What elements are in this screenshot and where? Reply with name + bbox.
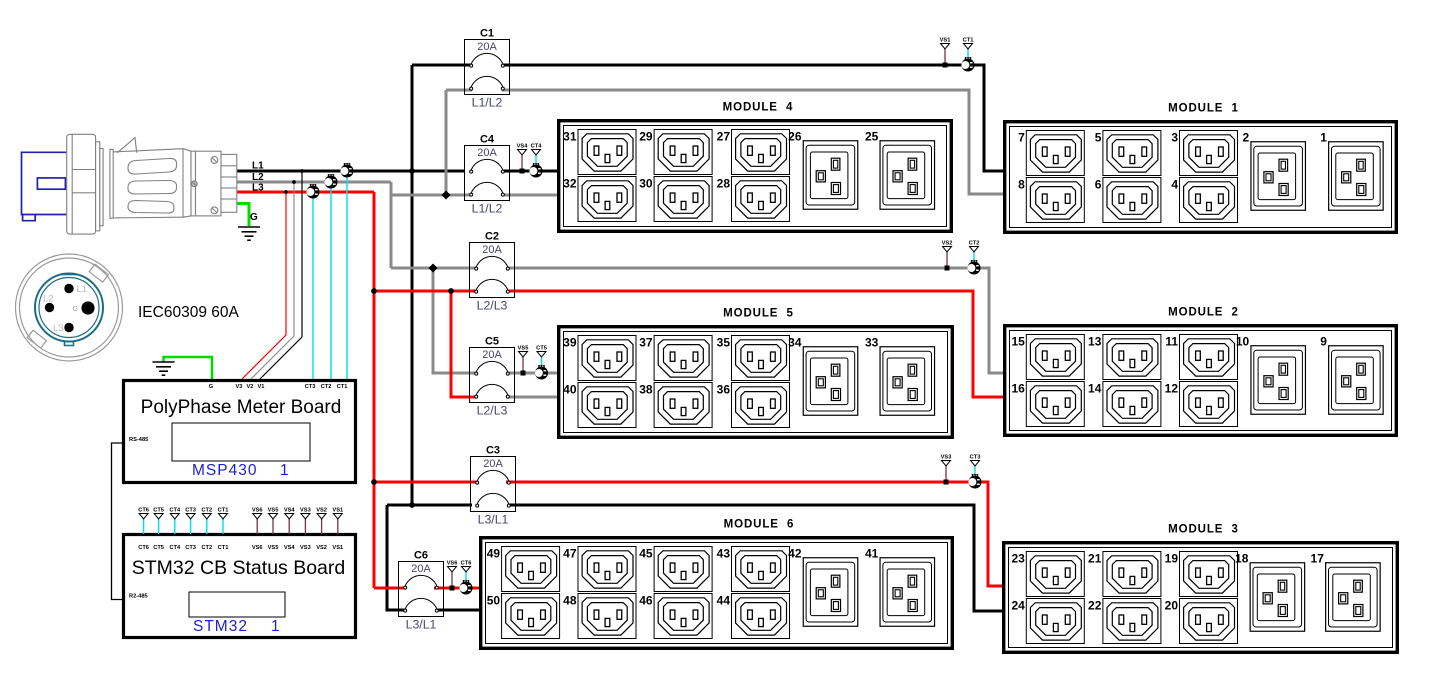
svg-text:47: 47	[563, 547, 577, 561]
svg-text:L3/L1: L3/L1	[406, 618, 437, 632]
svg-text:35: 35	[717, 336, 731, 350]
svg-text:17: 17	[1311, 552, 1325, 566]
svg-text:5: 5	[1095, 131, 1102, 145]
svg-text:18: 18	[1235, 552, 1249, 566]
svg-text:20A: 20A	[482, 349, 502, 361]
svg-text:C3: C3	[486, 445, 500, 457]
svg-text:20A: 20A	[411, 563, 431, 575]
svg-text:1: 1	[1320, 131, 1327, 145]
svg-text:7: 7	[1018, 131, 1025, 145]
svg-text:L3: L3	[53, 323, 64, 334]
svg-text:VS1: VS1	[332, 508, 343, 514]
svg-text:29: 29	[639, 130, 653, 144]
svg-text:VS4: VS4	[517, 144, 529, 150]
svg-text:21: 21	[1088, 552, 1102, 566]
svg-text:VS2: VS2	[316, 545, 327, 551]
svg-text:37: 37	[639, 336, 653, 350]
svg-text:20: 20	[1165, 599, 1179, 613]
svg-text:30: 30	[639, 177, 653, 191]
svg-text:46: 46	[639, 594, 653, 608]
svg-text:L1: L1	[77, 284, 88, 295]
svg-text:48: 48	[563, 594, 577, 608]
svg-text:CT1: CT1	[963, 38, 974, 44]
svg-text:1: 1	[280, 462, 290, 479]
svg-text:CT4: CT4	[169, 508, 181, 514]
svg-text:8: 8	[1018, 178, 1025, 192]
svg-text:VS6: VS6	[252, 508, 263, 514]
svg-text:MODULE 4: MODULE 4	[723, 102, 794, 114]
svg-text:MODULE 5: MODULE 5	[723, 308, 794, 320]
svg-text:MODULE 1: MODULE 1	[1168, 103, 1239, 115]
svg-text:CT3: CT3	[305, 384, 316, 390]
svg-text:CT1: CT1	[337, 384, 348, 390]
svg-text:CT6: CT6	[461, 561, 472, 567]
svg-text:V2: V2	[247, 384, 254, 390]
svg-text:MODULE 2: MODULE 2	[1168, 307, 1239, 319]
svg-text:G: G	[73, 306, 78, 313]
svg-text:CT3: CT3	[185, 545, 196, 551]
svg-text:CT2: CT2	[969, 241, 980, 247]
svg-text:50: 50	[487, 594, 501, 608]
svg-text:39: 39	[563, 336, 577, 350]
svg-text:CT4: CT4	[531, 144, 543, 150]
svg-text:STM32 CB Status Board: STM32 CB Status Board	[132, 557, 346, 579]
svg-text:VS3: VS3	[300, 545, 311, 551]
svg-text:VS6: VS6	[252, 545, 263, 551]
svg-text:C2: C2	[485, 231, 499, 243]
svg-text:6: 6	[1095, 178, 1102, 192]
svg-text:L1/L2: L1/L2	[472, 96, 503, 110]
svg-text:12: 12	[1165, 382, 1179, 396]
svg-text:20A: 20A	[477, 147, 497, 159]
svg-text:33: 33	[865, 336, 879, 350]
svg-text:VS1: VS1	[332, 545, 343, 551]
svg-text:15: 15	[1011, 335, 1025, 349]
svg-text:CT5: CT5	[536, 346, 547, 352]
svg-text:16: 16	[1011, 382, 1025, 396]
svg-text:10: 10	[1236, 335, 1250, 349]
svg-text:MODULE 3: MODULE 3	[1168, 524, 1239, 536]
svg-text:CT2: CT2	[201, 508, 212, 514]
svg-text:VS2: VS2	[942, 241, 953, 247]
svg-text:STM32: STM32	[193, 618, 248, 635]
svg-text:L3/L1: L3/L1	[478, 513, 509, 527]
svg-text:34: 34	[788, 336, 802, 350]
svg-text:L2/L3: L2/L3	[477, 299, 508, 313]
svg-text:VS6: VS6	[447, 561, 458, 567]
svg-text:L2: L2	[252, 172, 264, 183]
svg-text:CT2: CT2	[201, 545, 212, 551]
svg-text:20A: 20A	[483, 458, 503, 470]
svg-text:CT3: CT3	[185, 508, 196, 514]
svg-text:22: 22	[1088, 599, 1102, 613]
svg-text:4: 4	[1171, 178, 1178, 192]
svg-text:C6: C6	[414, 550, 428, 562]
svg-text:44: 44	[717, 594, 731, 608]
svg-text:C5: C5	[485, 336, 499, 348]
svg-text:43: 43	[717, 547, 731, 561]
svg-text:27: 27	[717, 130, 731, 144]
svg-text:VS4: VS4	[284, 508, 296, 514]
svg-text:VS3: VS3	[941, 455, 952, 461]
svg-text:V3: V3	[236, 384, 243, 390]
svg-text:IEC60309 60A: IEC60309 60A	[138, 304, 239, 321]
svg-text:C1: C1	[480, 28, 494, 40]
svg-text:CT1: CT1	[218, 545, 229, 551]
svg-text:L2/L3: L2/L3	[477, 404, 508, 418]
svg-text:42: 42	[788, 547, 802, 561]
svg-text:V1: V1	[258, 384, 265, 390]
svg-text:CT6: CT6	[138, 545, 149, 551]
svg-text:CT4: CT4	[169, 545, 181, 551]
svg-text:VS2: VS2	[316, 508, 327, 514]
svg-text:38: 38	[639, 383, 653, 397]
svg-text:45: 45	[639, 547, 653, 561]
svg-text:26: 26	[788, 130, 802, 144]
svg-text:G: G	[250, 212, 258, 223]
svg-text:3: 3	[1171, 131, 1178, 145]
svg-text:PolyPhase Meter Board: PolyPhase Meter Board	[141, 397, 342, 418]
svg-text:13: 13	[1088, 335, 1102, 349]
svg-text:VS5: VS5	[518, 346, 529, 352]
svg-text:CT1: CT1	[218, 508, 229, 514]
svg-text:28: 28	[717, 177, 731, 191]
svg-text:L3: L3	[252, 183, 264, 194]
svg-text:23: 23	[1011, 552, 1025, 566]
svg-text:G: G	[209, 384, 214, 390]
svg-text:R2-485: R2-485	[129, 594, 148, 600]
svg-text:CT5: CT5	[153, 545, 164, 551]
svg-text:49: 49	[487, 547, 501, 561]
svg-text:VS1: VS1	[940, 38, 951, 44]
svg-text:40: 40	[563, 383, 577, 397]
svg-text:19: 19	[1165, 552, 1179, 566]
svg-text:CT2: CT2	[321, 384, 332, 390]
svg-text:32: 32	[563, 177, 577, 191]
svg-text:VS5: VS5	[268, 545, 279, 551]
svg-text:20A: 20A	[482, 244, 502, 256]
svg-text:VS3: VS3	[300, 508, 311, 514]
svg-text:25: 25	[865, 130, 879, 144]
svg-text:MODULE 6: MODULE 6	[724, 519, 795, 531]
svg-text:C4: C4	[480, 134, 495, 146]
svg-text:36: 36	[717, 383, 731, 397]
svg-text:L1/L2: L1/L2	[472, 202, 503, 216]
svg-text:14: 14	[1088, 382, 1102, 396]
svg-text:CT6: CT6	[138, 508, 149, 514]
svg-text:RS-485: RS-485	[129, 437, 148, 443]
svg-text:VS5: VS5	[268, 508, 279, 514]
svg-text:1: 1	[271, 618, 281, 635]
svg-text:41: 41	[865, 547, 879, 561]
svg-text:CT3: CT3	[970, 455, 981, 461]
svg-text:20A: 20A	[477, 41, 497, 53]
svg-text:L2: L2	[43, 294, 54, 305]
svg-text:31: 31	[563, 130, 577, 144]
svg-text:VS4: VS4	[284, 545, 296, 551]
svg-text:24: 24	[1011, 599, 1025, 613]
svg-text:11: 11	[1165, 335, 1178, 349]
svg-text:CT5: CT5	[153, 508, 164, 514]
svg-text:MSP430: MSP430	[192, 462, 257, 479]
svg-text:L1: L1	[252, 161, 264, 172]
svg-text:9: 9	[1320, 335, 1327, 349]
svg-text:2: 2	[1243, 131, 1250, 145]
